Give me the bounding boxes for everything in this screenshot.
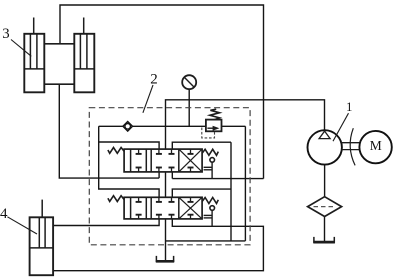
motor M circle (359, 131, 391, 163)
filter diamond (308, 197, 342, 217)
wire tank return line (166, 240, 246, 242)
wire center T line to tank (165, 219, 167, 261)
wire right B channel (230, 142, 232, 241)
wire rail end drop (244, 126, 246, 241)
cylinder 4 body (30, 217, 53, 275)
upper valve detent circle and stem (210, 158, 215, 163)
wire upper valve A top stub (99, 142, 159, 149)
coupling arc (350, 128, 355, 165)
check valve ball (125, 124, 131, 130)
component 3 left cylinder (24, 34, 44, 93)
wire filter to tank (324, 216, 326, 241)
wire A line from cyl3 bottom (59, 84, 159, 178)
dashed enclosure box 2 (89, 108, 250, 245)
wire lower valve B top stub (172, 189, 231, 197)
wire gauge stem (188, 89, 190, 126)
cylinder 4 piston and rod (30, 200, 53, 248)
component 3 left cylinder piston and rod (24, 18, 44, 69)
component 3 connecting block (44, 44, 74, 84)
wire B line under upper valve (172, 178, 263, 180)
lower valve body (124, 197, 202, 219)
wire pump pressure line (166, 100, 325, 149)
lower valve blocked port symbols (136, 197, 194, 219)
label 3 leader (11, 40, 31, 57)
lower valve detent circle and stem (210, 206, 215, 211)
label 1 leader (333, 113, 349, 141)
middle tank (156, 256, 174, 261)
wire upper valve B bottom stub (171, 172, 173, 179)
wire upper valve A bottom stub (158, 172, 160, 178)
drive shaft (342, 143, 360, 150)
component 3 right cylinder piston and rod (74, 18, 94, 69)
upper valve right spring (202, 149, 218, 155)
wire rail (99, 125, 246, 127)
filter dashed element (314, 206, 336, 208)
label 4 leader (7, 217, 37, 234)
wire center P-T line between valves (165, 172, 167, 197)
lower valve left spring (108, 196, 124, 202)
svg-text:4: 4 (0, 206, 8, 222)
svg-text:M: M (370, 138, 382, 153)
upper valve blocked port symbols (136, 149, 194, 172)
wire pump to filter (324, 165, 326, 197)
wire left A channel (99, 126, 159, 197)
lower valve right spring (202, 198, 218, 204)
lower valve dividers (131, 197, 179, 219)
upper valve dividers (131, 149, 179, 172)
right tank (313, 237, 335, 242)
relief valve pilot dashed line (202, 128, 215, 138)
lower valve crossed position (179, 197, 202, 219)
svg-text:1: 1 (346, 100, 352, 114)
upper valve crossed position (179, 149, 202, 172)
relief valve body (206, 120, 222, 132)
wire lower valve A bottom stub to cyl4 top port (53, 219, 159, 226)
svg-text:3: 3 (2, 26, 9, 42)
relief valve arrow (207, 127, 213, 129)
wire lower valve B bottom stub to cyl4 bottom port (53, 219, 263, 271)
pump outlet triangle (319, 131, 330, 139)
wire upper valve B top stub (172, 142, 231, 149)
svg-text:2: 2 (150, 72, 158, 88)
upper valve body (124, 149, 202, 172)
pump U1 circle (308, 130, 342, 164)
pressure gauge (182, 75, 196, 89)
label 2 leader (143, 85, 153, 113)
component 3 right cylinder (74, 34, 94, 93)
upper valve left spring (108, 148, 124, 154)
wire top line (cyl3 top supply) (60, 5, 264, 179)
relief valve spring (210, 109, 220, 119)
check valve diamond (123, 122, 133, 132)
